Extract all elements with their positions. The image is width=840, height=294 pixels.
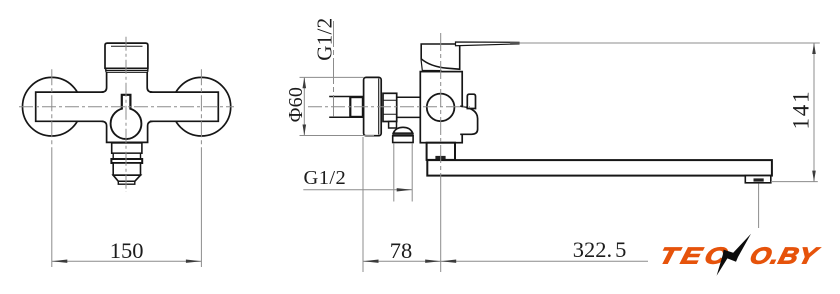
side ball circle [427,94,455,122]
center line left circle / ext [51,69,53,152]
long spout [427,160,772,176]
spout stub upper [112,143,142,153]
nut facets [383,100,397,114]
diverter bump [460,106,477,134]
left wall flange circle [23,77,82,136]
shower outlet neck [389,122,397,129]
flange face line [378,79,380,135]
svg-text:O.BY: O.BY [747,243,822,269]
supply pipe [329,97,420,118]
diverter knob [467,94,475,108]
svg-text:78: 78 [390,238,413,263]
cartridge stem [122,95,131,110]
shower outlet knurl band [393,133,413,136]
wall escutcheon flange [364,77,382,135]
body cylinder [420,72,462,143]
G1/2 top leader [333,21,335,116]
handle cap [105,43,148,68]
handle collar [106,68,148,72]
logo lightning bolt N [717,234,751,276]
side view center vertical / ext [440,33,442,185]
shower outlet body [393,136,413,143]
center line right circle / ext [200,69,202,152]
body lower block [102,121,153,142]
handle cap side [421,44,460,69]
svg-text:150: 150 [110,238,144,263]
phi60 dimension line [303,77,305,135]
center line body vertical front [125,37,127,192]
322.5 dimension [441,260,759,262]
svg-text:141: 141 [789,90,814,130]
aerator insert [754,178,764,181]
78 dimension [362,137,364,272]
side view center line horizontal [308,106,470,108]
svg-text:G1/2: G1/2 [312,18,336,61]
spout stub tip [118,181,135,184]
svg-text:G1/2: G1/2 [304,167,347,189]
nut [383,93,397,121]
spout stub ring [111,159,142,163]
logo background mask [648,228,826,280]
ball circle [111,108,142,139]
cap skirt sliver [421,59,442,70]
shower outlet dome [393,127,412,133]
lever [456,42,520,46]
svg-text:Φ60: Φ60 [285,87,307,122]
141 dimension [510,42,820,44]
outlet ext lines [393,144,395,202]
dimension 150 line [52,260,202,262]
eccentric connector [350,97,363,117]
spout stub neck [113,153,140,159]
center line horizontal front [19,106,234,108]
spout stub taper [113,175,140,181]
cap slot [111,45,143,47]
spout connector insert [435,156,445,159]
aerator housing [745,176,771,183]
right supply arm [150,92,219,121]
body upper section [102,72,153,92]
right wall flange circle [172,77,231,136]
phi60 ext lines [300,76,364,78]
spout stub lower [113,163,140,175]
spout connector [427,143,455,160]
svg-text:322.5: 322.5 [573,237,627,262]
left supply arm [36,92,104,121]
G1/2 bottom leader [303,189,412,191]
